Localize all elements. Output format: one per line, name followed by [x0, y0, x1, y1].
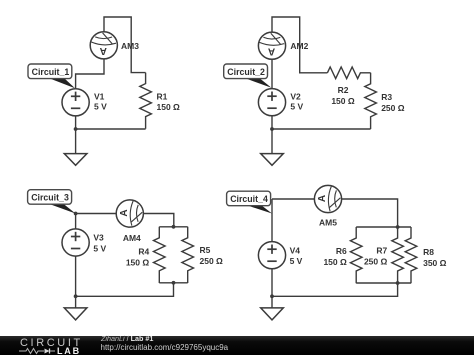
svg-text:R8: R8 — [423, 247, 434, 257]
svg-text:R7: R7 — [376, 245, 387, 255]
svg-text:150 Ω: 150 Ω — [157, 102, 181, 112]
svg-text:R4: R4 — [138, 247, 149, 257]
svg-text:250 Ω: 250 Ω — [200, 256, 224, 266]
svg-text:Circuit_4: Circuit_4 — [230, 194, 268, 204]
svg-text:150 Ω: 150 Ω — [323, 257, 347, 267]
svg-text:250 Ω: 250 Ω — [381, 103, 405, 113]
svg-text:AM4: AM4 — [123, 233, 141, 243]
svg-text:350 Ω: 350 Ω — [423, 258, 447, 268]
svg-text:R2: R2 — [338, 85, 349, 95]
svg-text:5 V: 5 V — [290, 102, 303, 112]
svg-text:5 V: 5 V — [94, 102, 107, 112]
svg-text:5 V: 5 V — [93, 244, 106, 254]
svg-text:R6: R6 — [336, 246, 347, 256]
svg-text:V3: V3 — [93, 233, 104, 243]
svg-text:R1: R1 — [157, 91, 168, 101]
svg-text:Circuit_1: Circuit_1 — [32, 67, 70, 77]
svg-text:R3: R3 — [381, 92, 392, 102]
svg-text:AM2: AM2 — [290, 41, 308, 51]
svg-text:R5: R5 — [200, 245, 211, 255]
svg-text:AM3: AM3 — [121, 41, 139, 51]
svg-text:AM5: AM5 — [319, 217, 337, 227]
svg-text:V2: V2 — [290, 91, 301, 101]
svg-text:V4: V4 — [290, 246, 301, 256]
svg-text:V1: V1 — [94, 91, 105, 101]
svg-text:150 Ω: 150 Ω — [126, 258, 150, 268]
svg-text:250 Ω: 250 Ω — [364, 256, 388, 266]
svg-text:Circuit_3: Circuit_3 — [31, 193, 69, 203]
svg-text:Circuit_2: Circuit_2 — [227, 67, 265, 77]
svg-text:5 V: 5 V — [290, 256, 303, 266]
svg-text:150 Ω: 150 Ω — [331, 96, 355, 106]
